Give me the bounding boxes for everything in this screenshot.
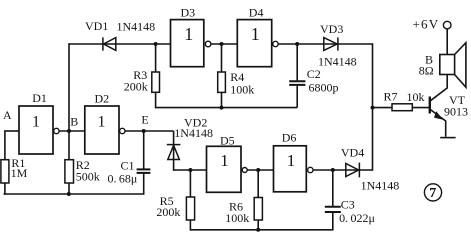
- svg-text:C1: C1: [121, 158, 135, 172]
- svg-text:6800p: 6800p: [309, 81, 339, 95]
- svg-text:8Ω: 8Ω: [419, 64, 434, 78]
- svg-text:D5: D5: [220, 134, 235, 148]
- svg-text:1: 1: [184, 24, 193, 44]
- svg-text:100k: 100k: [225, 211, 249, 225]
- svg-text:1: 1: [32, 114, 40, 131]
- svg-text:B: B: [70, 115, 78, 129]
- svg-text:1N4148: 1N4148: [117, 20, 156, 34]
- svg-text:1: 1: [98, 114, 106, 131]
- svg-text:0. 022μ: 0. 022μ: [339, 211, 375, 225]
- svg-text:C2: C2: [307, 67, 321, 81]
- svg-text:A: A: [3, 108, 12, 122]
- svg-text:VD3: VD3: [320, 22, 343, 36]
- svg-text:1M: 1M: [11, 166, 28, 180]
- svg-text:500k: 500k: [76, 170, 100, 184]
- svg-text:9013: 9013: [444, 105, 468, 119]
- svg-text:200k: 200k: [124, 79, 148, 93]
- svg-text:E: E: [141, 113, 148, 127]
- svg-text:D2: D2: [95, 92, 110, 106]
- svg-text:1: 1: [287, 151, 296, 170]
- svg-text:10k: 10k: [407, 90, 425, 104]
- svg-text:0. 68μ: 0. 68μ: [108, 171, 138, 185]
- svg-text:VD1: VD1: [85, 19, 108, 33]
- svg-text:D4: D4: [249, 5, 264, 19]
- svg-text:+6V: +6V: [413, 17, 440, 32]
- svg-text:1N4148: 1N4148: [361, 179, 400, 193]
- svg-text:1: 1: [251, 24, 260, 44]
- svg-text:D3: D3: [181, 5, 196, 19]
- svg-text:C3: C3: [341, 198, 355, 212]
- svg-text:1N4148: 1N4148: [174, 126, 213, 140]
- svg-text:1N4148: 1N4148: [318, 55, 357, 69]
- svg-text:R7: R7: [384, 90, 398, 104]
- svg-text:D6: D6: [282, 131, 297, 145]
- svg-text:VD4: VD4: [341, 146, 364, 160]
- svg-text:7: 7: [429, 186, 436, 201]
- svg-text:D1: D1: [32, 91, 47, 105]
- svg-text:100k: 100k: [230, 83, 254, 97]
- svg-text:200k: 200k: [156, 205, 180, 219]
- svg-text:1: 1: [220, 151, 229, 170]
